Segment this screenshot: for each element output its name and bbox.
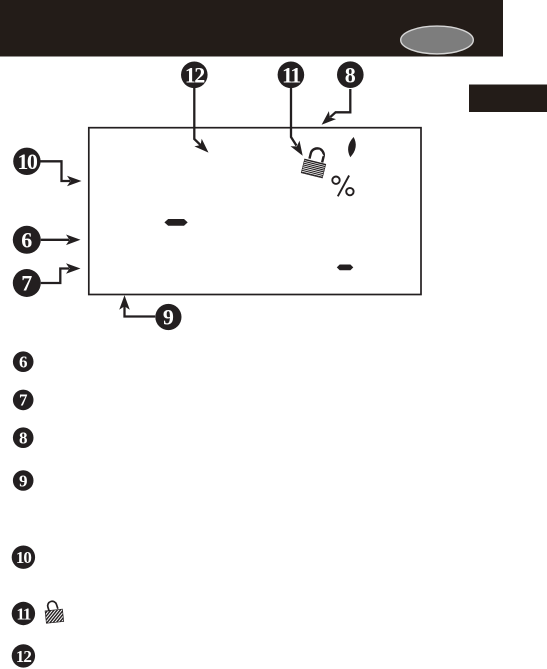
arrow from 6	[41, 235, 81, 246]
list item 12	[12, 644, 35, 667]
list item 7	[13, 390, 34, 411]
svg-text:6: 6	[21, 227, 32, 252]
list item 10	[12, 546, 35, 569]
arrow from 9	[119, 295, 155, 316]
svg-text:10: 10	[17, 149, 38, 174]
svg-text:9: 9	[19, 471, 28, 490]
callout 6	[13, 226, 41, 254]
svg-text:8: 8	[345, 62, 356, 87]
LCD segment dash 2	[337, 265, 354, 271]
svg-text:12: 12	[16, 647, 32, 666]
callout 12	[181, 62, 208, 89]
svg-text:10: 10	[16, 548, 32, 567]
svg-text:7: 7	[21, 271, 32, 296]
svg-text:12: 12	[185, 62, 206, 87]
arrow from 7	[41, 263, 81, 283]
svg-text:11: 11	[16, 604, 31, 623]
percent symbol	[332, 176, 353, 197]
display frame	[89, 128, 421, 295]
oval button	[401, 26, 474, 54]
LCD segment dash 1	[164, 219, 187, 226]
svg-text:6: 6	[19, 353, 28, 372]
top banner	[0, 0, 503, 57]
svg-text:9: 9	[163, 304, 174, 329]
svg-text:11: 11	[282, 62, 300, 87]
callout 10	[13, 148, 40, 175]
arrow from 8	[322, 89, 351, 125]
svg-text:8: 8	[19, 429, 28, 448]
arrow from 12	[194, 88, 208, 153]
svg-text:7: 7	[19, 391, 28, 410]
small padlock icon (list)	[44, 599, 64, 623]
list item 9	[13, 470, 34, 491]
list item 6	[13, 351, 34, 372]
padlock icon (display)	[301, 146, 329, 178]
right edge tab	[469, 85, 547, 113]
apostrophe mark	[348, 137, 356, 157]
callout 8	[337, 61, 364, 88]
arrow from 11	[291, 88, 303, 156]
callout 11	[278, 62, 305, 89]
list item 8	[13, 427, 34, 448]
callout 7	[13, 269, 41, 297]
list item 11	[12, 602, 35, 625]
arrow from 10	[41, 161, 82, 186]
callout 9	[155, 304, 181, 330]
